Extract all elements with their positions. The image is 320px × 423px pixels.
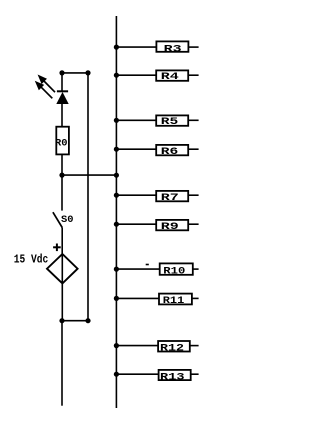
wire: bus tap to R4 [116, 74, 156, 76]
wire: R13 right stub [191, 373, 199, 375]
wire: R11 right stub [192, 297, 199, 299]
svg-text:S0: S0 [61, 214, 74, 226]
resistor R7 [114, 191, 199, 204]
resistor R11 [114, 294, 199, 308]
svg-text:R12: R12 [160, 342, 184, 354]
wire: middle vertical branch x=88 [87, 73, 89, 321]
node: junction dot on bus for R13 [114, 372, 119, 377]
resistor R12 [114, 341, 199, 354]
node: junction dot at R0 bottom [59, 173, 64, 178]
svg-text:R11: R11 [163, 295, 185, 307]
wire: bus tap to R11 [116, 297, 159, 299]
svg-text:R9: R9 [161, 221, 179, 233]
svg-text:R13: R13 [160, 372, 185, 384]
resistor R0 box [56, 127, 69, 155]
svg-text:R4: R4 [161, 71, 179, 83]
resistor R13 [114, 370, 199, 384]
wire: bus tap to R10 [116, 268, 159, 270]
svg-text:R7: R7 [161, 192, 179, 204]
wire: left branch tail to bottom [61, 321, 63, 406]
node: junction dot on bus for R11 [114, 296, 119, 301]
wire: bus tap to R13 [116, 373, 158, 375]
resistor R5 body box [156, 115, 188, 125]
resistor R10 body box [160, 263, 193, 274]
wire: R5 right stub [188, 119, 198, 121]
minus polarity tick near R10 [146, 264, 149, 266]
resistor R6 [114, 145, 199, 158]
wire: R4 right stub [188, 74, 198, 76]
wire: horizontal from left branch to bus (crosses x=88 without dot) [62, 174, 116, 176]
node: junction dot on bus for R4 [114, 73, 119, 78]
resistor R13 body box [159, 370, 191, 380]
resistor R11 body box [159, 294, 192, 305]
voltage source V1 plus sign [53, 244, 61, 252]
wire: LED to R0 [61, 103, 63, 127]
resistor R10 [114, 263, 199, 277]
node: junction dot on bus for R12 [114, 343, 119, 348]
node: junction dot on bus at y=175 [114, 173, 119, 178]
wire: bus tap to R9 [116, 223, 156, 225]
node: bottom-left junction dot [59, 318, 64, 323]
wire: switch to source [61, 228, 63, 255]
LED D1 emission arrow 2 [39, 85, 53, 99]
wire: R12 right stub [190, 345, 199, 347]
wire: bus tap to R12 [116, 345, 158, 347]
wire: R6 right stub [188, 148, 198, 150]
node: top-right junction dot [85, 70, 90, 75]
node: junction dot on bus for R3 [114, 45, 119, 50]
node: junction dot on bus for R6 [114, 147, 119, 152]
wire: bus tap to R7 [116, 194, 156, 196]
resistor R9 [114, 220, 199, 233]
svg-text:R0: R0 [55, 138, 68, 150]
svg-text:R3: R3 [164, 43, 182, 55]
wire: bus tap to R3 [116, 46, 156, 48]
resistor R7 body box [156, 191, 188, 201]
resistor R3 [114, 41, 199, 55]
wire: left branch top segment (junction to LED) [61, 73, 63, 92]
svg-text:R5: R5 [161, 116, 179, 128]
resistor R4 [114, 70, 199, 83]
voltage source V1 diamond body [47, 254, 78, 283]
LED D1: cathode bar [57, 90, 68, 92]
resistor R6 body box [156, 145, 188, 155]
wire: right vertical bus [115, 16, 117, 408]
node: junction dot on bus for R7 [114, 193, 119, 198]
node: top-left junction dot [59, 70, 64, 75]
svg-text:R10: R10 [163, 265, 185, 277]
resistor R4 body box [156, 70, 188, 80]
resistor R12 body box [158, 341, 190, 352]
resistor R9 body box [156, 220, 188, 230]
LED D1 emission arrow 1 [42, 79, 56, 93]
wire: bus tap to R5 [116, 119, 156, 121]
wire: R10 right stub [193, 268, 199, 270]
node: bottom-right junction dot [85, 318, 90, 323]
wire: R9 right stub [188, 223, 198, 225]
wire: top horizontal connecting left branch to middle branch [62, 72, 88, 74]
node: junction dot on bus for R5 [114, 118, 119, 123]
LED D1: triangle [56, 92, 68, 104]
resistor R3 body box [156, 41, 188, 51]
wire: bus tap to R6 [116, 148, 156, 150]
wire: R7 right stub [188, 194, 198, 196]
wire: R0 to switch [61, 154, 63, 210]
svg-text:R6: R6 [161, 146, 179, 158]
switch S0 blade [53, 212, 62, 227]
resistor R5 [114, 115, 199, 128]
node: junction dot on bus for R10 [114, 267, 119, 272]
wire: R3 right stub [188, 46, 198, 48]
node: junction dot on bus for R9 [114, 222, 119, 227]
wire: vertical through source down to bottom junction [61, 254, 63, 321]
svg-text:15 Vdc: 15 Vdc [14, 253, 49, 267]
wire: bottom horizontal connecting branches [62, 320, 88, 322]
